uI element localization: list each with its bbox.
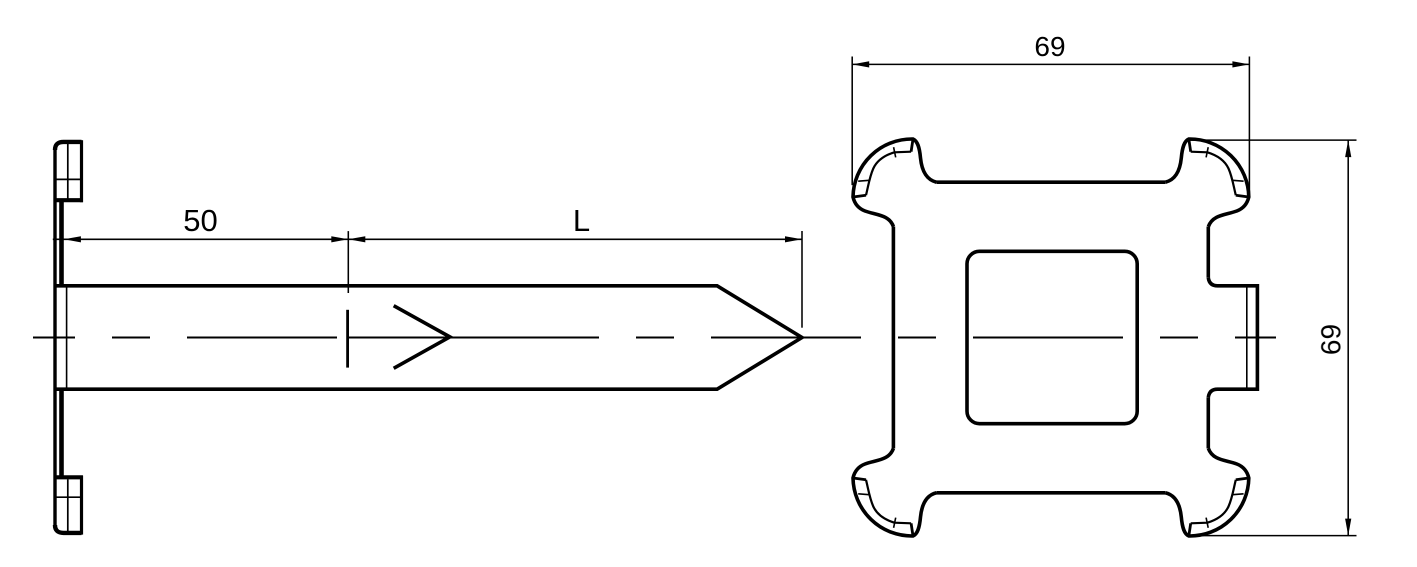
svg-text:69: 69 — [1034, 31, 1065, 62]
front view: plate right edge upper part — [1207, 227, 1211, 278]
front view: top-left claw end faces — [853, 195, 866, 197]
front view: bottom-left corner claw silhouette — [853, 449, 937, 537]
dimension 50 / L : dimension line — [53, 238, 802, 240]
front view: top-left claw inner arc — [866, 152, 911, 196]
dimension 69 right: dimension line — [1347, 140, 1349, 535]
side view: top clip inner fold lines — [57, 144, 81, 199]
front view: top-right claw bend ticks — [1233, 179, 1244, 182]
front view: central square tube socket — [967, 251, 1137, 423]
dimension arrow at plate — [64, 236, 81, 242]
drive-direction arrow: chevron head — [394, 306, 450, 369]
front view: bottom-left claw bend ticks — [858, 493, 869, 496]
front view: plate left edge — [892, 227, 896, 449]
front view: bottom-right claw bend ticks — [1233, 493, 1244, 496]
front view: bottom-right claw inner arc — [1191, 480, 1236, 524]
front view: right middle tab (shaft socket protrusion) — [1208, 278, 1257, 397]
drive-direction arrow: shaft line — [348, 337, 448, 339]
extension line between 50 and L — [347, 231, 349, 293]
front view: top-right corner claw silhouette — [1165, 139, 1249, 227]
dimension 69 top: dimension line — [852, 63, 1249, 65]
front view: bottom-left claw end faces — [853, 478, 866, 480]
side view: bottom clip inner fold lines — [57, 479, 81, 531]
extension line at spike tip — [801, 231, 803, 328]
side view: top clip (folded claw, edge-on) — [55, 142, 82, 150]
front view: bottom-right claw end faces — [1236, 478, 1249, 480]
front view: plate top edge — [937, 180, 1166, 184]
svg-text:L: L — [573, 203, 590, 238]
centerline (dash-dot axis through both views) — [33, 336, 1276, 338]
svg-text:69: 69 — [1315, 324, 1346, 355]
side view: bottom clip (folded claw, edge-on) — [55, 525, 82, 533]
side view: plate right-face band between clips and spike — [59, 200, 64, 477]
front view: bottom-left claw inner arc — [866, 480, 911, 524]
dimension arrows at 50/L boundary — [331, 236, 348, 242]
svg-text:50: 50 — [183, 203, 217, 238]
front view: top-right claw inner arc — [1191, 152, 1236, 196]
dimension arrow at tip — [785, 236, 802, 242]
side view: flange plate left edge — [53, 148, 56, 527]
front view: top-left claw bend ticks — [858, 179, 869, 182]
dimension 69 top: left extension line — [851, 57, 853, 186]
front view: plate right edge lower part — [1207, 397, 1211, 448]
front view: top-left corner claw silhouette — [853, 139, 937, 227]
dimension 69 right: top extension line — [1189, 139, 1356, 141]
drive-direction arrow inside shaft: tail tick — [346, 310, 349, 368]
side view: spike shaft outline with pointed tip — [55, 286, 802, 389]
front view: tab inner material line — [1246, 287, 1248, 388]
front view: top-right claw end faces — [1236, 195, 1249, 197]
front view: plate bottom edge — [937, 491, 1166, 495]
front view: bottom-right corner claw silhouette — [1165, 449, 1249, 537]
dimension 69 top: right extension line — [1248, 57, 1250, 197]
side view: shaft root edge line — [66, 287, 68, 388]
dimension 69 right: bottom extension line — [1197, 535, 1357, 537]
